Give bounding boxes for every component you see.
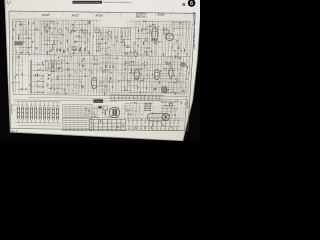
svg-text:«AW 500 Mignon» Type FT500: «AW 500 Mignon» Type FT500 bbox=[193, 11, 196, 49]
wire bbox=[91, 12, 93, 15]
coil T7 secondary winding bbox=[115, 109, 117, 116]
wire bbox=[190, 24, 192, 57]
wire bbox=[20, 42, 23, 45]
wire bbox=[94, 29, 102, 31]
wire bbox=[91, 109, 93, 119]
terminal lead bbox=[136, 118, 138, 122]
resistor R84 bbox=[100, 85, 102, 86]
wire bbox=[92, 108, 105, 110]
transistor Q2 bbox=[58, 29, 62, 33]
coil label bbox=[43, 104, 46, 106]
wire bbox=[48, 11, 50, 14]
wire bbox=[90, 58, 93, 91]
wire bbox=[68, 52, 87, 54]
IF coil L25 bbox=[39, 107, 41, 120]
wire bbox=[184, 102, 186, 106]
wire bbox=[177, 100, 179, 106]
connector pin node bbox=[149, 106, 152, 109]
value label bbox=[128, 84, 131, 86]
wire bbox=[88, 57, 91, 93]
resistor R93 bbox=[136, 78, 138, 79]
wire rail bbox=[110, 91, 185, 94]
value label bbox=[126, 79, 128, 81]
transformer T5 bbox=[46, 61, 57, 71]
resistor R94 bbox=[140, 80, 142, 81]
capacitor C42 bbox=[84, 76, 86, 77]
node N bbox=[146, 73, 149, 76]
wire bbox=[147, 23, 148, 56]
wire lead bbox=[160, 121, 162, 126]
wire bbox=[22, 29, 40, 31]
node scan texture bbox=[86, 105, 141, 120]
wire bbox=[21, 57, 23, 92]
wire bbox=[125, 77, 152, 79]
wire bbox=[121, 52, 133, 54]
resistor R92 bbox=[131, 72, 133, 73]
wire bbox=[14, 42, 17, 45]
wire bbox=[17, 119, 19, 122]
terminal lead bbox=[128, 124, 130, 128]
resistor R11 bbox=[47, 43, 48, 45]
resistor R88 bbox=[143, 78, 144, 80]
wire coil lead bbox=[48, 102, 50, 107]
relay box K1 bbox=[103, 106, 107, 110]
capacitor C1 bbox=[20, 23, 22, 24]
node contact bbox=[42, 86, 43, 87]
wire bbox=[70, 29, 87, 31]
switch S1 contact 5 bbox=[32, 86, 45, 88]
capacitor C45 bbox=[82, 65, 84, 66]
switch S1 spine bbox=[29, 60, 31, 93]
wire bbox=[119, 89, 132, 91]
parts list line bbox=[63, 129, 87, 131]
capacitor C24 bbox=[180, 51, 182, 52]
capacitor C12 bbox=[75, 41, 76, 43]
wire bbox=[135, 102, 138, 117]
wire bbox=[42, 21, 56, 23]
annotation text bbox=[162, 108, 177, 110]
capacitor C29 bbox=[60, 49, 61, 52]
tube V6 envelope bbox=[154, 69, 159, 79]
IF coil L21 bbox=[22, 107, 24, 120]
wire bbox=[165, 58, 167, 95]
wire bbox=[176, 57, 178, 94]
wire bbox=[18, 124, 61, 127]
wire bbox=[127, 56, 128, 91]
resistor R41 bbox=[145, 28, 146, 30]
resistor R51 bbox=[145, 51, 147, 52]
wire bbox=[96, 91, 107, 93]
capacitor C3 bbox=[31, 47, 33, 48]
node scan texture bbox=[99, 27, 128, 57]
resistor R82 bbox=[102, 71, 104, 72]
tube V7 rectifier envelope bbox=[169, 68, 174, 77]
wire bbox=[164, 68, 182, 70]
cathode of V4 bbox=[92, 85, 95, 87]
resistor R67 bbox=[21, 89, 23, 90]
terminal lead bbox=[160, 125, 162, 129]
value label bbox=[106, 53, 109, 55]
switch S1 spine bbox=[31, 60, 33, 93]
capacitor C52 bbox=[153, 77, 155, 78]
terminal ring node bbox=[152, 128, 153, 129]
wire bbox=[119, 39, 121, 53]
node page sheet bbox=[5, 0, 202, 141]
grid of V3 bbox=[167, 34, 172, 36]
resistor R104 bbox=[105, 111, 106, 113]
wire bbox=[104, 108, 106, 118]
resistor R75 bbox=[94, 57, 95, 59]
resistor R63 bbox=[37, 91, 39, 92]
node page bottom edge shade bbox=[10, 132, 183, 141]
resistor R20 bbox=[87, 39, 88, 41]
capacitor C55 bbox=[125, 62, 127, 64]
resistor R77 bbox=[104, 85, 105, 87]
connector pin 5 bbox=[145, 110, 151, 112]
resistor R40 bbox=[138, 45, 139, 47]
wire bbox=[168, 56, 170, 94]
wire bbox=[120, 12, 122, 15]
node B bbox=[54, 27, 57, 30]
value label bbox=[74, 21, 77, 23]
wire bbox=[107, 55, 108, 95]
wire coil lead bbox=[17, 101, 19, 106]
terminal lead bbox=[132, 118, 134, 122]
connector pin node bbox=[149, 107, 152, 110]
resistor R3 bbox=[26, 31, 27, 33]
connector pin 2 bbox=[145, 104, 151, 106]
node scan texture bbox=[126, 19, 193, 58]
wire bbox=[109, 56, 110, 94]
wire bbox=[95, 50, 102, 52]
resistor R95 bbox=[124, 90, 126, 91]
wheel spoke bbox=[166, 115, 168, 117]
annotation text bbox=[161, 105, 173, 107]
grid of V1 bbox=[153, 31, 158, 33]
wire bbox=[47, 67, 63, 69]
wire bbox=[14, 55, 16, 93]
connector pin node bbox=[149, 104, 152, 107]
lamp ray bbox=[169, 106, 172, 107]
bracket note bbox=[12, 109, 16, 111]
wire bbox=[113, 28, 116, 55]
node contact bbox=[42, 64, 43, 65]
table value bbox=[103, 124, 106, 126]
wire coil row return bbox=[15, 122, 61, 125]
capacitor C31 bbox=[68, 49, 69, 51]
resistor R86 bbox=[137, 86, 138, 88]
wire heater bus bbox=[28, 97, 188, 99]
table strip divider bbox=[121, 95, 123, 100]
node contact bbox=[42, 81, 43, 82]
resistor R65 bbox=[22, 73, 23, 75]
lamp ray bbox=[170, 106, 172, 107]
switch S1 contact 3 bbox=[32, 75, 45, 77]
wire bbox=[157, 59, 159, 92]
dial cord bbox=[148, 116, 163, 118]
dial note bbox=[170, 110, 177, 112]
wire bbox=[180, 101, 182, 105]
resistor R57 bbox=[179, 22, 181, 23]
node E bbox=[92, 35, 95, 38]
value label bbox=[152, 65, 154, 67]
wire bbox=[136, 38, 148, 40]
wire bbox=[179, 56, 181, 95]
wire bbox=[51, 83, 80, 85]
resistor R2 bbox=[18, 37, 19, 39]
wire bbox=[97, 35, 111, 37]
table strip divider bbox=[147, 95, 149, 100]
terminal ring node bbox=[148, 128, 149, 129]
wire bbox=[96, 71, 114, 73]
terminal ring node bbox=[164, 129, 165, 130]
wire bbox=[39, 119, 41, 122]
wire bbox=[30, 23, 32, 52]
value label bbox=[145, 27, 148, 29]
wire bbox=[151, 57, 153, 96]
capacitor C54 bbox=[154, 88, 156, 90]
wire bbox=[160, 73, 170, 75]
resistor R21 bbox=[90, 33, 91, 35]
capacitor C30 bbox=[63, 50, 64, 53]
IF coil L27 bbox=[48, 107, 50, 120]
wire bbox=[50, 59, 65, 61]
wire bbox=[44, 23, 55, 25]
wire coil lead bbox=[35, 102, 37, 107]
capacitor C21 bbox=[156, 39, 158, 40]
wire bbox=[161, 100, 181, 102]
speaker note bbox=[122, 105, 127, 107]
wire bbox=[81, 21, 84, 56]
terminal ring node bbox=[168, 129, 169, 130]
tube V1 envelope bbox=[151, 28, 158, 41]
wire bbox=[34, 21, 36, 55]
node O bbox=[151, 73, 154, 76]
capacitor C17 bbox=[115, 37, 117, 39]
wire bbox=[118, 79, 144, 81]
wire bbox=[69, 22, 71, 56]
resistor R46 bbox=[149, 26, 151, 27]
resistor R61 bbox=[37, 80, 39, 81]
wire coil lead bbox=[43, 102, 45, 107]
coil L1 bbox=[123, 44, 126, 46]
resistor R1 bbox=[12, 37, 13, 39]
terminal lead bbox=[156, 125, 158, 129]
capacitor C7 bbox=[65, 27, 67, 28]
capacitor C6 bbox=[60, 42, 62, 43]
wire bbox=[47, 92, 79, 94]
wire bbox=[72, 56, 75, 93]
caption text bbox=[125, 102, 154, 104]
resistor R37 bbox=[125, 52, 127, 53]
terminal node bbox=[128, 122, 129, 123]
terminal lead bbox=[140, 124, 142, 128]
resistor R89 bbox=[135, 56, 137, 57]
wire bbox=[166, 61, 181, 63]
wire coil lead bbox=[22, 101, 24, 106]
transistor Q3 bbox=[72, 27, 77, 32]
resistor R107 bbox=[126, 110, 128, 111]
terminal lead bbox=[176, 125, 178, 129]
wire bbox=[51, 78, 82, 80]
wire bbox=[49, 63, 61, 65]
wire bbox=[96, 85, 106, 87]
resistor R24 bbox=[73, 46, 75, 47]
wire bbox=[17, 88, 28, 90]
wire bbox=[124, 53, 135, 55]
capacitor C57 bbox=[169, 63, 171, 64]
wire bbox=[39, 20, 41, 55]
wire bbox=[127, 85, 138, 87]
annotation text bbox=[161, 101, 175, 103]
tube socket node bbox=[129, 61, 133, 65]
resistor R5 bbox=[36, 29, 38, 30]
wire bbox=[162, 105, 176, 107]
wire bbox=[96, 89, 110, 91]
capacitor C33 bbox=[75, 48, 78, 50]
capacitor C40 bbox=[66, 69, 68, 70]
capacitor C14 bbox=[98, 46, 100, 47]
capacitor C25 bbox=[177, 47, 179, 49]
wire top rail right bbox=[130, 20, 191, 23]
cathode of V5 bbox=[135, 76, 138, 78]
wire coil lead bbox=[30, 102, 32, 107]
resistor R25 bbox=[74, 50, 76, 51]
capacitor C47 bbox=[91, 72, 93, 73]
connector pin 4 bbox=[145, 108, 151, 110]
resistor R42 bbox=[146, 51, 147, 53]
wire bbox=[125, 109, 132, 111]
wire bbox=[35, 119, 37, 122]
table strip divider bbox=[129, 95, 131, 100]
tube V3 EL95 bbox=[166, 33, 174, 41]
resistor R100 bbox=[174, 82, 176, 83]
resistor R34 bbox=[135, 50, 136, 52]
terminal lead bbox=[144, 125, 146, 129]
value label bbox=[53, 44, 56, 46]
resistor R19 bbox=[79, 35, 80, 37]
terminal lead bbox=[168, 125, 170, 129]
wire bbox=[138, 32, 158, 34]
wire bbox=[122, 45, 130, 47]
resistor R54 bbox=[174, 51, 175, 53]
wire bbox=[165, 24, 167, 57]
wire bbox=[54, 21, 56, 55]
schematic frame border bbox=[9, 11, 195, 131]
wire bbox=[163, 91, 182, 93]
capacitor C16 bbox=[113, 45, 115, 46]
coil L3 bbox=[130, 69, 133, 71]
parts list line bbox=[64, 109, 89, 111]
resistor R70 bbox=[79, 64, 80, 66]
wire bbox=[15, 56, 21, 58]
cathode of V2 bbox=[164, 32, 167, 34]
dial note bbox=[170, 107, 178, 109]
wire bbox=[26, 119, 28, 122]
wire bbox=[146, 25, 156, 27]
grid of V6 bbox=[155, 71, 159, 73]
coil label bbox=[39, 104, 42, 106]
table value bbox=[98, 120, 101, 122]
wire bbox=[164, 89, 175, 91]
wire bbox=[23, 22, 25, 53]
node M bbox=[133, 78, 136, 81]
terminal ring node bbox=[128, 128, 129, 129]
capacitor C80 can bbox=[181, 63, 185, 66]
coil L4 bbox=[165, 63, 168, 65]
wire ground bus bbox=[13, 94, 188, 96]
wire bbox=[73, 36, 87, 38]
wire terminal bus 1 bbox=[127, 119, 183, 122]
table value bbox=[141, 97, 144, 99]
wire bbox=[77, 32, 91, 34]
node contact bbox=[42, 92, 43, 93]
wire bbox=[141, 13, 143, 16]
wire bbox=[130, 56, 132, 94]
wire bbox=[132, 43, 134, 53]
wire bbox=[143, 59, 144, 93]
terminal lead bbox=[152, 118, 154, 122]
wire bbox=[18, 47, 30, 49]
capacitor C18 bbox=[127, 46, 129, 47]
wire bbox=[94, 26, 140, 29]
capacitor C5 bbox=[44, 27, 46, 28]
wire bbox=[123, 67, 148, 69]
value label bbox=[51, 86, 54, 88]
wire bbox=[167, 82, 185, 84]
wire bbox=[56, 120, 58, 123]
wire bbox=[121, 42, 123, 53]
node left margin stamp bbox=[7, 1, 11, 5]
table strip divider bbox=[159, 96, 161, 101]
capacitor C9 bbox=[46, 31, 48, 33]
capacitor C4 bbox=[36, 48, 37, 50]
grid of V5 bbox=[135, 71, 139, 73]
wire bbox=[57, 75, 90, 77]
wire bbox=[178, 24, 180, 57]
terminal node bbox=[157, 123, 158, 124]
wire lead bbox=[151, 121, 153, 126]
wire bbox=[56, 21, 58, 54]
capacitor C8 bbox=[53, 42, 54, 45]
parts list line bbox=[64, 119, 90, 121]
resistor R52 bbox=[146, 54, 148, 55]
terminal node bbox=[136, 122, 137, 123]
resistor R66 bbox=[18, 57, 20, 58]
resistor R16 bbox=[47, 40, 49, 41]
terminal lead bbox=[172, 125, 174, 129]
switch S1 contact 1 bbox=[32, 64, 45, 66]
cathode of V6 bbox=[155, 76, 158, 78]
wire B+ bus bbox=[12, 54, 190, 56]
wire bbox=[25, 23, 27, 51]
parts list box 2 border bbox=[62, 118, 91, 130]
wire bbox=[185, 13, 187, 16]
table strip divider bbox=[110, 95, 112, 100]
resistor R31 bbox=[98, 43, 100, 44]
node L bbox=[123, 86, 126, 89]
header subtitle text bbox=[104, 1, 132, 3]
wire rail bbox=[119, 86, 187, 89]
capacitor C58 bbox=[173, 76, 175, 77]
node scan texture bbox=[28, 56, 191, 97]
resistor R85 bbox=[118, 81, 119, 83]
wire bbox=[181, 24, 183, 55]
terminal lead bbox=[148, 118, 150, 122]
capacitor C13 bbox=[88, 22, 89, 24]
wire AVC bus bbox=[13, 100, 117, 101]
IF transformer T4 bbox=[121, 28, 131, 39]
